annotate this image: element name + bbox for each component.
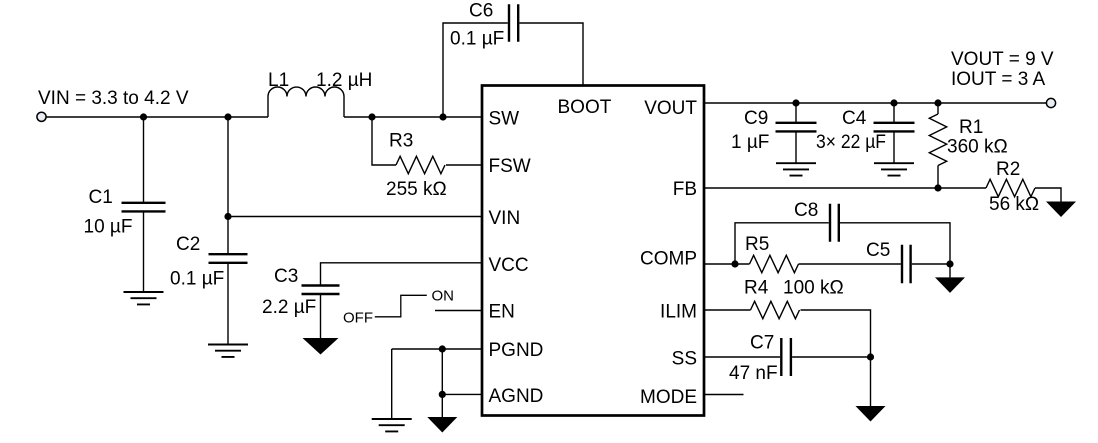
ground earth C1: [124, 292, 164, 304]
wire SS: [705, 356, 780, 358]
resistor R2: [986, 179, 1035, 196]
wire PGND: [392, 348, 482, 350]
wire VIN rail left: [47, 116, 269, 118]
svg-text:FSW: FSW: [489, 156, 531, 177]
node VIN/C2 junction: [224, 113, 231, 120]
resistor R1: [929, 114, 946, 166]
svg-text:AGND: AGND: [489, 386, 544, 407]
resistor R5: [750, 255, 799, 272]
wire FB: [705, 187, 986, 189]
svg-text:SW: SW: [489, 109, 520, 130]
svg-text:C5: C5: [866, 240, 890, 261]
svg-text:0.1 µF: 0.1 µF: [170, 269, 224, 290]
capacitor C9: [776, 123, 817, 132]
svg-text:1 µF: 1 µF: [731, 132, 769, 153]
svg-text:VCC: VCC: [489, 255, 529, 276]
capacitor C6: [509, 4, 518, 41]
ground earth C4: [874, 163, 914, 175]
wire C5 to node: [912, 263, 950, 265]
ground earth C9: [776, 163, 816, 175]
wire R3 drop: [372, 117, 396, 165]
node COMP junction: [731, 260, 738, 267]
wire PGND left drop: [391, 349, 393, 419]
capacitor C7: [781, 338, 791, 376]
wire node to ground: [949, 264, 951, 277]
svg-text:C2: C2: [176, 234, 200, 255]
node VIN pin junction: [224, 213, 231, 220]
svg-text:EN: EN: [489, 302, 515, 323]
wire C6 left riser: [443, 23, 508, 117]
svg-text:360 kΩ: 360 kΩ: [947, 137, 1008, 158]
wire VIN rail right to SW: [344, 116, 482, 118]
wire C9 bottom: [795, 131, 797, 163]
node SW/C6 junction: [439, 113, 446, 120]
wire PGND/AGND drop: [441, 349, 443, 417]
wire R4 to SS node: [801, 310, 871, 357]
capacitor C3: [302, 286, 340, 295]
wire R1 top: [937, 103, 939, 114]
svg-text:R4: R4: [744, 278, 769, 299]
ground triangle R2: [1046, 202, 1076, 218]
resistor R3: [396, 156, 445, 173]
svg-text:R5: R5: [745, 234, 769, 255]
wire EN stub: [435, 310, 482, 312]
wire C9 top: [795, 103, 797, 123]
wire C4 top: [893, 103, 895, 123]
ground triangle C5: [935, 277, 965, 293]
svg-text:2.2 µF: 2.2 µF: [262, 297, 316, 318]
output terminal VOUT: [1046, 98, 1055, 107]
svg-text:VOUT: VOUT: [644, 98, 697, 119]
svg-text:VIN = 3.3 to 4.2 V: VIN = 3.3 to 4.2 V: [38, 88, 189, 109]
node FB/R1 junction: [934, 184, 941, 191]
node PGND junction: [439, 345, 446, 352]
svg-text:IOUT = 3 A: IOUT = 3 A: [951, 69, 1045, 90]
resistor R4: [751, 301, 800, 318]
wire R1 bottom: [937, 166, 939, 189]
op-amp U1 regulator box: [482, 86, 704, 416]
inductor L1: [268, 87, 344, 117]
capacitor C4: [874, 123, 915, 132]
wire COMP: [705, 263, 750, 265]
svg-text:100 kΩ: 100 kΩ: [783, 278, 844, 299]
capacitor C1: [122, 203, 166, 212]
capacitor C2: [209, 254, 248, 263]
wire C3 bottom: [320, 294, 322, 338]
svg-text:MODE: MODE: [640, 387, 697, 408]
input terminal VIN: [37, 112, 46, 121]
svg-text:0.1 µF: 0.1 µF: [450, 29, 504, 50]
node VIN/C1 junction: [140, 113, 147, 120]
wire C6 to BOOT: [519, 23, 583, 85]
wire MODE stub: [705, 394, 744, 396]
wire C2 top: [227, 117, 229, 254]
svg-text:L1: L1: [268, 70, 289, 91]
svg-text:FB: FB: [673, 179, 697, 200]
svg-text:C9: C9: [744, 108, 768, 129]
capacitor C5: [902, 245, 911, 283]
wire R5 to C5: [799, 263, 901, 265]
wire C1 bottom: [143, 211, 145, 292]
ground triangle SS: [856, 406, 886, 422]
node VOUT/C9 junction: [792, 99, 799, 106]
ground triangle C3: [303, 338, 339, 355]
svg-text:R2: R2: [996, 159, 1020, 180]
ground earth C2: [208, 345, 248, 357]
node COMP right junction: [946, 260, 953, 267]
ground triangle AGND: [427, 417, 457, 433]
capacitor C8: [830, 204, 839, 242]
wire C8 right riser: [840, 223, 950, 264]
svg-text:255 kΩ: 255 kΩ: [386, 179, 447, 200]
svg-text:C8: C8: [794, 200, 818, 221]
svg-text:PGND: PGND: [489, 340, 544, 361]
svg-text:1.2 µH: 1.2 µH: [316, 70, 372, 91]
node VOUT/C4 junction: [890, 99, 897, 106]
wire AGND: [442, 393, 482, 395]
wire ILIM: [705, 309, 751, 311]
svg-text:C3: C3: [274, 266, 298, 287]
svg-text:R3: R3: [389, 131, 413, 152]
svg-text:3× 22 µF: 3× 22 µF: [816, 132, 886, 153]
wire R3 to FSW: [446, 164, 482, 166]
svg-text:ILIM: ILIM: [660, 302, 697, 323]
svg-text:C6: C6: [469, 1, 493, 22]
svg-text:10 µF: 10 µF: [84, 217, 133, 238]
svg-text:VIN: VIN: [489, 208, 521, 229]
svg-text:VOUT = 9 V: VOUT = 9 V: [951, 49, 1054, 70]
svg-text:56 kΩ: 56 kΩ: [989, 194, 1039, 215]
node SS junction: [867, 353, 874, 360]
wire C8 left riser: [735, 223, 829, 264]
wire C2 bottom: [227, 263, 229, 345]
svg-text:47 nF: 47 nF: [729, 363, 778, 384]
wire SS node to ground: [870, 357, 872, 406]
svg-text:ON: ON: [432, 288, 455, 305]
wire VIN pin: [228, 216, 482, 218]
wire C1 top: [143, 117, 145, 203]
wire VOUT rail: [705, 102, 1047, 104]
wire R2 to ground: [1035, 188, 1061, 202]
svg-text:OFF: OFF: [343, 310, 373, 327]
ground earth PGND: [372, 419, 412, 431]
svg-text:COMP: COMP: [640, 249, 697, 270]
node SW/R3 junction: [368, 113, 375, 120]
svg-text:BOOT: BOOT: [558, 97, 612, 118]
wire C4 bottom: [893, 131, 895, 163]
svg-text:C1: C1: [89, 187, 113, 208]
node AGND junction: [439, 391, 446, 398]
wire C7 to node: [792, 356, 870, 358]
svg-text:C4: C4: [842, 108, 867, 129]
switch EN on/off step: [375, 295, 427, 317]
node VOUT/R1 junction: [934, 99, 941, 106]
svg-text:R1: R1: [959, 117, 983, 138]
svg-text:C7: C7: [750, 333, 774, 354]
wire VCC: [321, 263, 483, 286]
svg-text:SS: SS: [672, 349, 697, 370]
